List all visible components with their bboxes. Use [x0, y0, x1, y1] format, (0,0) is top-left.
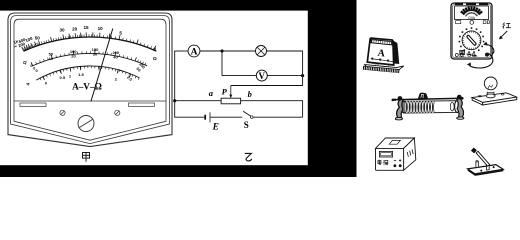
- svg-text:ΩVA: ΩVA: [468, 16, 475, 20]
- wire right vertical upper: [302, 51, 304, 86]
- wire top row to ammeter: [174, 50, 188, 52]
- voltmeter V: [256, 70, 267, 81]
- meter M1 zero adjust screw: [78, 116, 94, 132]
- svg-text:S: S: [244, 120, 249, 130]
- meter M1 needle: [91, 29, 113, 102]
- bulb icon: [472, 77, 517, 105]
- meter M1 lower scale arc: [36, 66, 139, 80]
- meter M1 left screw: [60, 110, 65, 115]
- wire switch to right: [253, 116, 303, 118]
- wire bottom left: [174, 116, 204, 118]
- svg-text:0: 0: [153, 46, 156, 51]
- wire rheostat to right: [241, 100, 303, 102]
- galvanometer icon: [363, 38, 404, 73]
- switch icon: [468, 148, 504, 176]
- arrow to red probe: [499, 31, 507, 39]
- wire voltmeter to right: [267, 75, 302, 77]
- svg-text:1.5: 1.5: [78, 72, 84, 77]
- svg-text:b: b: [248, 89, 252, 99]
- svg-text:15: 15: [83, 25, 89, 30]
- svg-text:E: E: [212, 123, 219, 133]
- scan border right block: [308, 0, 357, 177]
- meter M1 lower scale numbers: [36, 68, 133, 86]
- meter M1 face panel: [14, 19, 166, 140]
- switch S: [243, 111, 253, 118]
- multimeter icon: [451, 3, 492, 59]
- wire ammeter to lamp: [200, 50, 256, 52]
- wire slider feed: [231, 85, 303, 87]
- svg-text:P: P: [222, 86, 228, 96]
- meter M1 right screw: [115, 110, 120, 115]
- wire to rheostat: [174, 100, 221, 102]
- svg-text:20: 20: [71, 54, 76, 59]
- svg-text:20: 20: [72, 27, 78, 32]
- power supply icon: [376, 138, 416, 170]
- meter M1 left unit labels: [22, 60, 31, 86]
- meter M1 A-V-ohm label: [72, 81, 102, 91]
- svg-text:30: 30: [59, 28, 65, 33]
- lamp L1: [256, 46, 267, 57]
- label b: [248, 89, 252, 99]
- svg-text:50: 50: [35, 35, 41, 40]
- svg-text:40: 40: [113, 55, 118, 60]
- rheostat icon: [392, 93, 464, 120]
- label S: [244, 120, 249, 130]
- wire lamp to right: [267, 50, 303, 52]
- svg-text:A–V–Ω: A–V–Ω: [72, 81, 102, 91]
- svg-text:5: 5: [119, 30, 122, 35]
- meter M1 ohm scale arc: [22, 32, 157, 51]
- scan border top bar: [0, 0, 357, 11]
- meter M1 ohm unit label: [153, 56, 157, 62]
- multimeter red probe: [483, 42, 494, 55]
- svg-text:10: 10: [49, 56, 54, 61]
- meter M1 middle scale numbers: [30, 47, 145, 73]
- node junction top: [220, 49, 223, 52]
- label a: [209, 88, 214, 98]
- meter M1 left slot: [20, 103, 46, 106]
- scan border bottom bar: [0, 165, 357, 177]
- svg-text:0: 0: [36, 68, 38, 73]
- arrow to black probe: [467, 54, 478, 57]
- node junction left: [173, 99, 176, 102]
- svg-text:30: 30: [93, 52, 98, 57]
- svg-text:0.5: 0.5: [60, 75, 66, 80]
- battery E: [205, 112, 210, 122]
- meter M1 right slot: [129, 103, 155, 106]
- meter M1 middle scale arc: [31, 50, 147, 66]
- meter M1 ohm scale numbers: [13, 25, 156, 51]
- meter M1 outer frame: [8, 13, 172, 147]
- wire to voltmeter: [222, 75, 256, 77]
- ammeter A: [188, 45, 200, 58]
- label jia (meter): [83, 153, 90, 162]
- label hong (red): [503, 23, 511, 29]
- wire voltmeter branch down: [221, 51, 223, 76]
- svg-text:a: a: [209, 88, 214, 98]
- svg-text:V: V: [259, 71, 266, 81]
- label E: [212, 123, 219, 133]
- wire battery to switch: [210, 116, 242, 118]
- wire left vertical: [174, 51, 176, 117]
- svg-text:Ω: Ω: [153, 56, 157, 62]
- svg-text:10: 10: [98, 26, 104, 31]
- label hei (black): [459, 50, 465, 56]
- label yi (circuit): [245, 153, 252, 161]
- node junction right: [301, 74, 304, 77]
- multimeter black probe: [467, 53, 493, 68]
- label P: [222, 86, 228, 96]
- slider arrow P: [229, 86, 232, 99]
- wire right vertical lower: [302, 100, 304, 117]
- rheostat R1 body: [221, 98, 241, 104]
- svg-text:A: A: [191, 48, 198, 58]
